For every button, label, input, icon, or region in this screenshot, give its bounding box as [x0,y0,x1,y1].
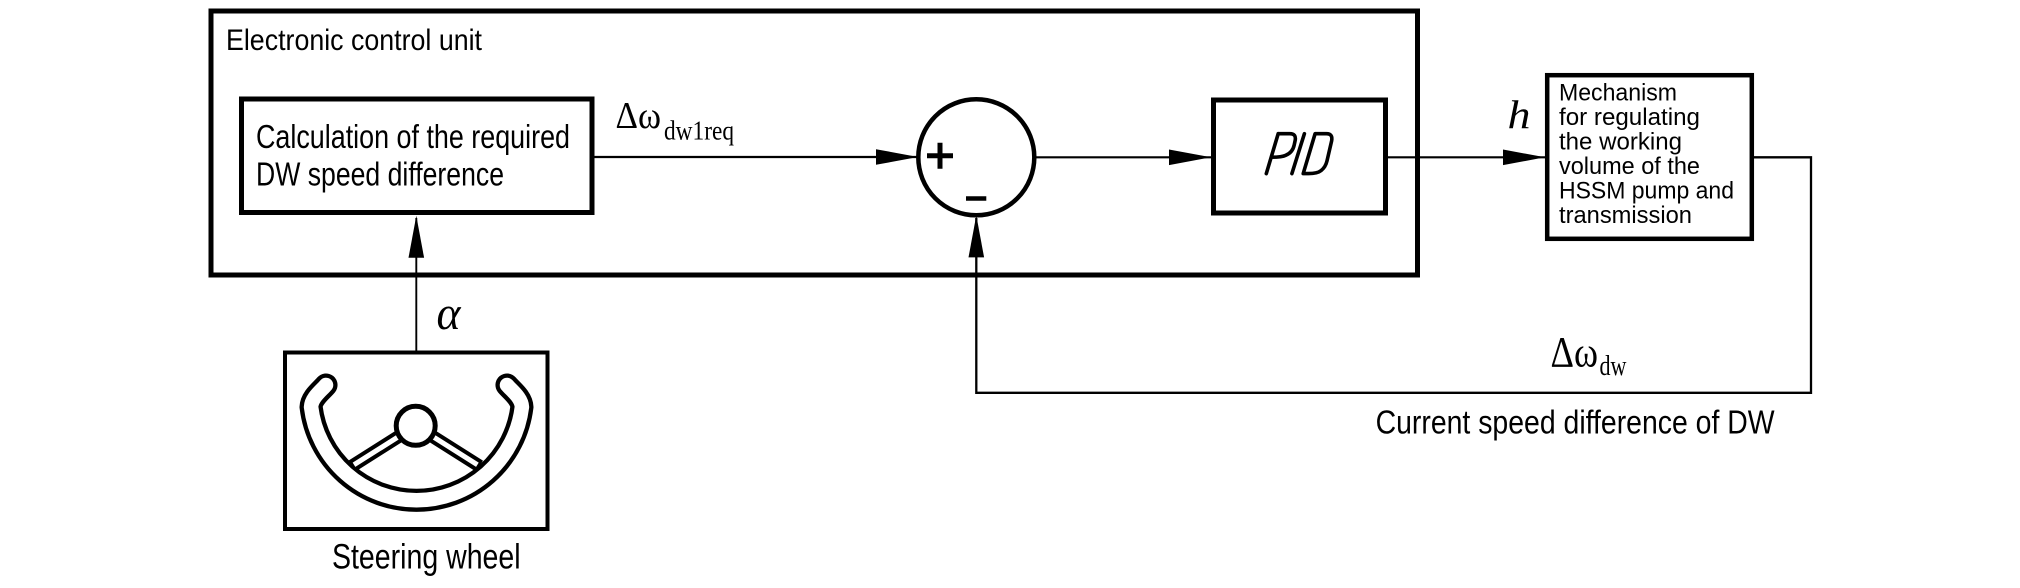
svg-text:Current speed difference of DW: Current speed difference of DW [1376,403,1776,440]
svg-text:Δω: Δω [1551,330,1599,377]
svg-text:volume of the: volume of the [1559,153,1700,180]
svg-text:DW speed difference: DW speed difference [256,155,504,192]
svg-text:dw1req: dw1req [664,115,734,145]
svg-text:Calculation of the required: Calculation of the required [256,118,570,155]
svg-text:the working: the working [1559,128,1682,155]
svg-text:transmission: transmission [1559,202,1692,229]
svg-text:for regulating: for regulating [1559,104,1700,131]
svg-text:dw: dw [1600,351,1628,382]
svg-text:Δω: Δω [616,95,662,137]
svg-text:HSSM pump and: HSSM pump and [1559,177,1734,204]
svg-text:Mechanism: Mechanism [1559,79,1677,106]
svg-text:α: α [437,287,462,340]
svg-text:Steering wheel: Steering wheel [332,538,521,577]
svg-text:h: h [1508,92,1531,137]
svg-text:Electronic control unit: Electronic control unit [226,24,483,57]
